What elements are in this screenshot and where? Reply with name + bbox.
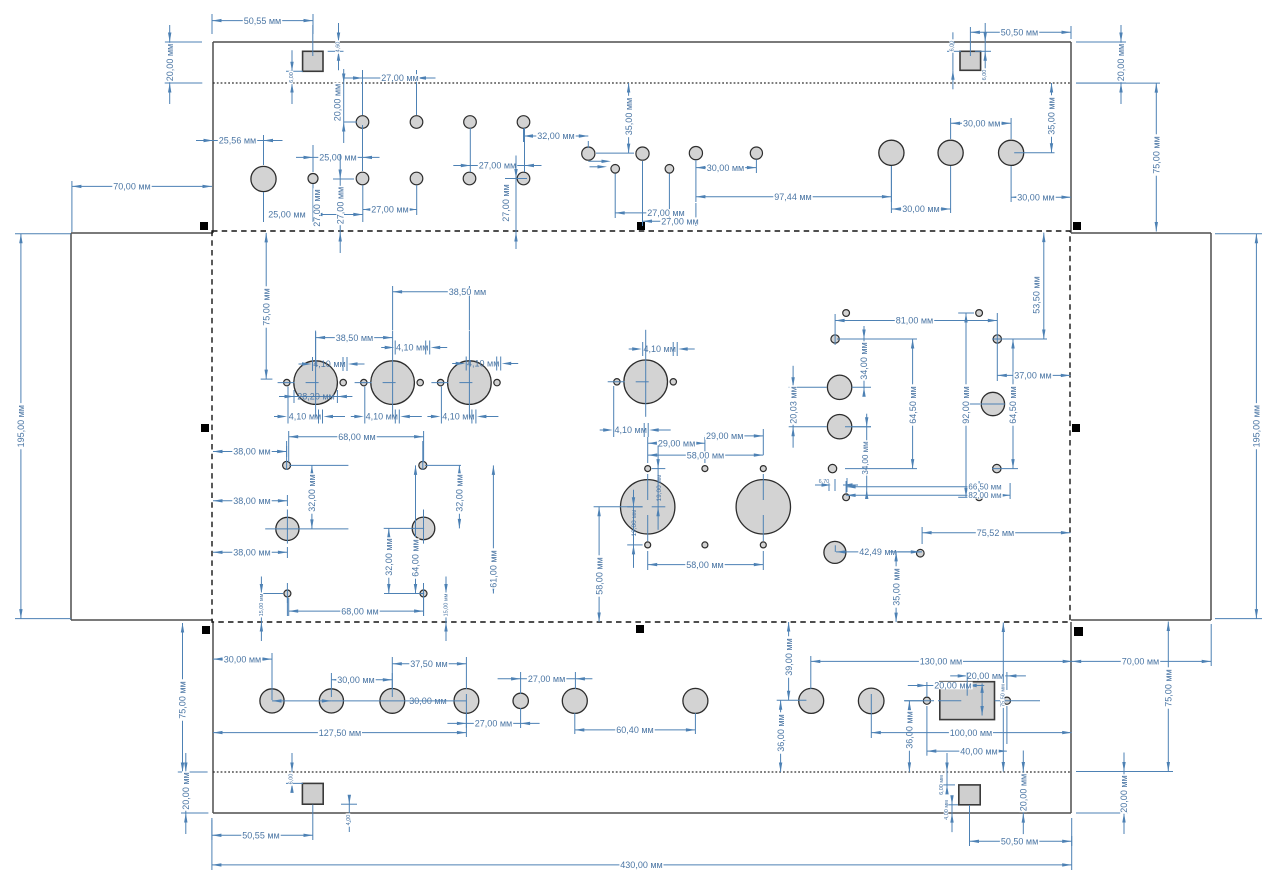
hole mount small A2 [419, 461, 427, 469]
svg-text:75,00 мм: 75,00 мм [1152, 136, 1162, 173]
svg-text:39,00 мм: 39,00 мм [784, 638, 794, 675]
dim 30,00 bf1 [271, 653, 273, 700]
hole right m2 [993, 335, 1001, 343]
svg-text:6,00: 6,00 [289, 774, 295, 785]
hole top trio #2 [938, 140, 963, 165]
hole bottom row #1 [260, 689, 284, 713]
dim 70,00 right-wing [1210, 624, 1212, 666]
dim 61,00 v [492, 465, 494, 548]
dim 20,00 iec-r [950, 675, 967, 677]
dim 64,50 left [880, 338, 917, 340]
svg-text:38,00 мм: 38,00 мм [233, 496, 270, 506]
grip handle top-left [200, 222, 208, 230]
dim 4,10 lower c1 [274, 416, 280, 418]
svg-text:6,00: 6,00 [950, 41, 956, 52]
dim 81,00 [834, 314, 836, 345]
hole cluster c1 [582, 147, 595, 160]
hole right jack [824, 541, 846, 563]
grip handle mid-right [1072, 424, 1080, 432]
svg-text:38,50 мм: 38,50 мм [336, 333, 373, 343]
cluster small leaders [588, 160, 606, 162]
dim 32,00 cluster [523, 129, 525, 143]
svg-text:61,00 мм: 61,00 мм [489, 550, 499, 587]
svg-text:32,00 мм: 32,00 мм [307, 474, 317, 511]
svg-text:36,00 мм: 36,00 мм [776, 714, 786, 751]
dim 25,56 [263, 135, 265, 165]
hole right b1 [828, 464, 836, 472]
grip handle top-right [1073, 222, 1081, 230]
svg-text:27,00 мм: 27,00 мм [312, 189, 322, 226]
svg-text:38,50 мм: 38,50 мм [449, 287, 486, 297]
bottom flap outline [212, 622, 214, 813]
dim 4,10 upper c2 [381, 347, 387, 349]
svg-text:4,10 мм: 4,10 мм [289, 412, 321, 422]
tube socket centerlines #1 [315, 331, 317, 418]
svg-text:27,00 мм: 27,00 мм [335, 187, 345, 224]
grip handle mid-left [201, 424, 209, 432]
dim 27,00 bf1 [520, 672, 522, 694]
hole cluster c4 [750, 147, 762, 159]
dim 42,49 [834, 545, 836, 552]
dim 20,00 iec-l [908, 685, 927, 687]
dim 40,00 [927, 750, 1007, 752]
svg-text:92,00 мм: 92,00 мм [961, 386, 971, 423]
svg-text:97,44 мм: 97,44 мм [774, 192, 811, 202]
dim 20,00 top-right-out [1076, 41, 1126, 43]
hole bottom row #4 [454, 689, 479, 714]
dim 4,10 lower c2 [351, 416, 357, 418]
dim 32,00 v3 [388, 528, 390, 536]
ext ticks left-pattern [289, 464, 348, 466]
hole mount mid B2 [412, 517, 435, 540]
svg-text:30,00 мм: 30,00 мм [337, 675, 374, 685]
dim 75,00 bf-right [1076, 771, 1173, 773]
svg-text:70,00 мм: 70,00 мм [113, 182, 150, 192]
transformer centerlines [647, 474, 649, 500]
svg-text:35,00 мм: 35,00 мм [624, 98, 634, 135]
hole right m1 [831, 335, 839, 343]
svg-text:37,00 мм: 37,00 мм [1014, 371, 1051, 381]
svg-text:20,03 мм: 20,03 мм [788, 386, 798, 423]
dim 25,00 rowB-low [312, 184, 314, 222]
dim 27,00 v-a [333, 178, 354, 180]
dim 100,00 [870, 694, 872, 738]
svg-text:75,00 мм: 75,00 мм [1164, 669, 1174, 706]
svg-text:30,00 мм: 30,00 мм [707, 163, 744, 173]
dim 20,00 top-left-out [165, 41, 202, 43]
dim 53,50 v [1006, 338, 1047, 340]
svg-text:27,00 мм: 27,00 мм [371, 205, 408, 215]
svg-text:29,00 мм: 29,00 мм [706, 431, 743, 441]
dim 58,00 bottom [647, 551, 649, 570]
svg-text:6,70: 6,70 [819, 479, 830, 485]
transformer screw hole #6 [760, 542, 766, 548]
svg-text:75,00 мм: 75,00 мм [261, 288, 271, 325]
dim 75,00 bf-left [178, 771, 208, 773]
dim 20,00 bf-right-out [1076, 812, 1128, 814]
bottom flange fold (dotted) [213, 771, 1071, 773]
dim 38,00 c [286, 547, 288, 558]
svg-text:20,00 мм: 20,00 мм [181, 772, 191, 809]
hole top row1 #2 [410, 116, 423, 129]
mini dim 6,70 [815, 484, 826, 486]
dim 28,20 [293, 390, 295, 403]
dim 4,10 upper c3 [452, 363, 458, 365]
dim 34,00 v1 [837, 338, 880, 340]
ext square-right centerline [969, 27, 971, 56]
dim 97,44 [695, 173, 697, 202]
transformer screw hole #2 [702, 466, 708, 472]
hole right med2 [827, 415, 851, 439]
svg-text:6,00: 6,00 [982, 70, 988, 81]
svg-text:25,56 мм: 25,56 мм [219, 136, 256, 146]
ext bsq-left centerline [312, 805, 314, 841]
svg-text:58,00 мм: 58,00 мм [686, 560, 723, 570]
svg-text:20,00 мм: 20,00 мм [1019, 774, 1029, 811]
transformer screw hole #3 [760, 466, 766, 472]
svg-text:81,00 мм: 81,00 мм [896, 316, 933, 326]
dim 4,10 upper c4 [629, 348, 635, 350]
svg-text:4,10 мм: 4,10 мм [396, 343, 428, 353]
svg-text:75,50 мм: 75,50 мм [1001, 684, 1007, 707]
svg-text:25,00 мм: 25,00 мм [268, 210, 305, 220]
grip handle bottom-left [202, 626, 210, 634]
hole top row1 #1 [356, 116, 369, 129]
hole cluster c2 [636, 147, 649, 160]
mini dim bsq-left 6,00 [286, 782, 303, 784]
dim 50,50 bottom [1071, 836, 1073, 846]
dim 30,00 bf2 [330, 673, 332, 697]
hole right med3 [981, 392, 1004, 415]
dim 68,00 lower [288, 598, 290, 616]
dim 130,00 [810, 656, 812, 689]
dim 38,50 b [392, 286, 394, 330]
hole mount small C1 [284, 590, 291, 597]
dim 75,00 panel-left-v [261, 378, 273, 380]
transformer screw hole #1 [645, 466, 651, 472]
hole bottom row #7 [683, 688, 708, 713]
right wing outline [1071, 232, 1211, 234]
svg-text:75,00 мм: 75,00 мм [178, 681, 188, 718]
svg-text:4,10 мм: 4,10 мм [442, 412, 474, 422]
svg-text:15,00 мм: 15,00 мм [444, 593, 450, 616]
svg-text:35,00 мм: 35,00 мм [891, 568, 901, 605]
svg-text:64,50 мм: 64,50 мм [1008, 386, 1018, 423]
dim 36,00 v1 [780, 700, 782, 712]
dim 15,00 left [260, 577, 262, 594]
hole top small [308, 174, 318, 184]
tube socket screw holes #1 [284, 379, 290, 385]
dim 75,52 [921, 527, 923, 544]
svg-text:15,00 мм: 15,00 мм [259, 593, 265, 616]
dim 27,00 v-b [505, 178, 527, 180]
tube socket hole D28.2 #3 [448, 361, 492, 405]
dim 36,00 v2 [905, 700, 923, 702]
dim 20,03 v [792, 366, 794, 387]
hole top row1 #4 [517, 116, 530, 129]
dim 27,00 cluster-low1 [614, 174, 616, 219]
svg-text:28,20 мм: 28,20 мм [297, 392, 334, 402]
top flange fold (dotted) [213, 82, 1071, 84]
svg-text:34,00 мм: 34,00 мм [859, 342, 869, 379]
svg-text:4,00 мм: 4,00 мм [944, 800, 950, 820]
svg-text:75,52 мм: 75,52 мм [977, 528, 1014, 538]
dim 64,50 right [992, 338, 1018, 340]
svg-text:64,50 мм: 64,50 мм [908, 386, 918, 423]
dim 30,00 trio-2 [950, 118, 952, 139]
grip handle top-mid [637, 222, 645, 230]
dim 195,00 right [1215, 233, 1262, 235]
svg-text:4,10 мм: 4,10 мм [313, 359, 345, 369]
hole bottom row #6 [562, 688, 587, 713]
top flap outline [213, 41, 1071, 43]
svg-text:27,00 мм: 27,00 мм [528, 674, 565, 684]
dim 39,00 v [777, 699, 807, 701]
dim 50,55 top [211, 14, 213, 34]
hole bottom row #2 [319, 689, 343, 713]
svg-text:4,10 мм: 4,10 мм [614, 425, 646, 435]
dim 92,00 [958, 312, 974, 314]
tube socket centerlines #4 [645, 330, 647, 417]
svg-text:4,10 мм: 4,10 мм [366, 412, 398, 422]
svg-text:4,60: 4,60 [336, 42, 342, 53]
svg-text:6,00 мм: 6,00 мм [939, 775, 945, 795]
grip handle bottom-right [1074, 627, 1083, 636]
svg-text:35,00 мм: 35,00 мм [1047, 97, 1057, 134]
dim 58,00 left-v [594, 506, 643, 508]
svg-text:430,00 мм: 430,00 мм [620, 860, 662, 870]
dim 27,00 bf2 [465, 713, 467, 728]
svg-text:50,50 мм: 50,50 мм [1001, 837, 1038, 847]
svg-text:130,00 мм: 130,00 мм [920, 657, 962, 667]
svg-text:20,00 мм: 20,00 мм [1119, 775, 1129, 812]
tube socket hole D28.2 #4 [624, 360, 668, 404]
right cluster centerlines [789, 386, 827, 388]
transformer screw hole #4 [645, 542, 651, 548]
hole top big-left [251, 166, 276, 191]
dim 75,00 top-right [1076, 82, 1160, 84]
square cutout top-right [960, 51, 981, 70]
dim 32,00 v2 [458, 465, 460, 472]
tube socket hole D28.2 #1 [294, 361, 338, 405]
hole IEC right [1003, 697, 1010, 704]
dim 50,55 bottom [211, 818, 213, 840]
dim 38,00 a [286, 446, 288, 457]
dim 70,00 left-wing [71, 181, 73, 232]
hole cluster s2 [665, 165, 674, 174]
dim 30,00 trio-1 [890, 166, 892, 213]
hole mount B2 centerlines [384, 527, 424, 529]
dim 32,00 v1 [311, 465, 313, 472]
svg-text:20,00 мм: 20,00 мм [165, 44, 175, 81]
hole top trio #1 [879, 140, 904, 165]
svg-text:50,55 мм: 50,55 мм [244, 16, 281, 26]
svg-text:30,00 мм: 30,00 мм [1017, 192, 1054, 202]
dim 4,10 lower c4 [600, 429, 606, 431]
tube socket screw holes #4 [614, 379, 620, 385]
hole right b2 [993, 464, 1001, 472]
mini dim sq-left 4,60 [328, 50, 344, 52]
left wing outline [71, 232, 213, 234]
svg-text:27,00 мм: 27,00 мм [661, 216, 698, 226]
dim 127,50 [465, 694, 467, 737]
dim 27,00 rowB-right [469, 128, 471, 172]
svg-text:58,00 мм: 58,00 мм [594, 557, 604, 594]
svg-text:20,00 мм: 20,00 мм [333, 84, 343, 121]
square cutout top-left [303, 51, 323, 71]
dim 20,00 bf-inside [1022, 751, 1024, 772]
mini dim sq-right a [947, 50, 961, 52]
svg-text:37,50 мм: 37,50 мм [410, 659, 447, 669]
svg-text:20,00 мм: 20,00 мм [934, 681, 971, 691]
svg-text:50,55 мм: 50,55 мм [242, 831, 279, 841]
tube socket screw holes #2 [361, 379, 367, 385]
svg-text:82,00 мм: 82,00 мм [968, 491, 1001, 500]
dim 195,00 left [15, 233, 71, 235]
svg-text:27,00 мм: 27,00 мм [501, 184, 511, 221]
svg-text:32,00 мм: 32,00 мм [537, 131, 574, 141]
mini dim bsq-left 4,00 [341, 803, 357, 805]
svg-text:195,00 мм: 195,00 мм [1252, 405, 1262, 447]
mini dim sq-right b [975, 50, 991, 52]
svg-text:20,00 мм: 20,00 мм [1116, 44, 1126, 81]
tube socket centerlines #3 [468, 331, 470, 418]
svg-text:38,00 мм: 38,00 мм [233, 548, 270, 558]
hole IEC left [923, 697, 930, 704]
tube socket centerlines #2 [392, 331, 394, 418]
svg-text:40,00 мм: 40,00 мм [960, 746, 997, 756]
dim 38,50 a [315, 332, 317, 366]
label 27,00 v-extra [312, 188, 322, 227]
selected panel rect (dashed) [212, 231, 1070, 622]
dim 430,00 [211, 820, 213, 870]
svg-text:32,00 мм: 32,00 мм [455, 474, 465, 511]
dim 27,00 rowA [362, 70, 364, 115]
hole mount B1 centerlines [265, 528, 348, 530]
svg-text:32,00 мм: 32,00 мм [384, 538, 394, 575]
mini dim bsq-right 4,00 [946, 804, 958, 806]
dim 34,00 v2 [845, 426, 871, 428]
dim 38,00 b [286, 495, 288, 506]
transformer screw hole #5 [702, 542, 708, 548]
hole cluster s1 [611, 165, 620, 174]
mini dim sq-left 6,00 [286, 70, 303, 72]
svg-text:30,00 мм: 30,00 мм [902, 204, 939, 214]
hole mount small A1 [283, 461, 291, 469]
iec ticks [966, 673, 968, 696]
svg-text:29,00 мм: 29,00 мм [658, 438, 695, 448]
dim 30,00 cluster [695, 160, 697, 173]
hole bottom row #3 [380, 689, 405, 714]
grip handle bottom-mid [636, 625, 644, 633]
dim 35,00 cluster-v [596, 152, 634, 154]
svg-text:20,00 мм: 20,00 мм [967, 671, 1004, 681]
svg-text:68,00 мм: 68,00 мм [341, 606, 378, 616]
svg-text:50,50 мм: 50,50 мм [1001, 28, 1038, 38]
svg-text:60,40 мм: 60,40 мм [616, 725, 653, 735]
ext square-left centerline [312, 25, 314, 56]
dim 20,00 rowA-v [344, 121, 357, 123]
dim 68,00 upper [288, 431, 290, 462]
hole top row2 #2 [410, 172, 423, 185]
dim 64,00 v [415, 465, 417, 537]
hole bottom row #9 [858, 688, 884, 714]
dim 82,00 [1009, 483, 1011, 499]
svg-text:19,00 мм: 19,00 мм [631, 509, 638, 537]
svg-text:70,00 мм: 70,00 мм [1122, 657, 1159, 667]
svg-text:19,00 мм: 19,00 мм [656, 474, 663, 502]
hole right tiny [917, 549, 925, 557]
dim 35,00 v-right [890, 551, 922, 553]
dim 29,00 a [647, 437, 649, 463]
svg-text:4,10 мм: 4,10 мм [643, 344, 675, 354]
tube socket hole D28.2 #2 [371, 361, 415, 405]
dim 25,00 rowB [312, 145, 314, 172]
hole top row2 #1 [356, 172, 369, 185]
svg-text:25,00 мм: 25,00 мм [319, 153, 356, 163]
hole cluster c3 [689, 147, 702, 160]
hole mount small C2 [420, 590, 427, 597]
ext bsq-right centerline [969, 805, 971, 846]
svg-text:4,10 мм: 4,10 мм [467, 359, 499, 369]
svg-text:27,00 мм: 27,00 мм [479, 161, 516, 171]
svg-text:38,00 мм: 38,00 мм [233, 447, 270, 457]
dim 50,50 top [1070, 26, 1072, 39]
svg-text:58,00 мм: 58,00 мм [687, 450, 724, 460]
hole top row2 #3 [463, 172, 476, 185]
iec height arrows [981, 683, 983, 715]
tube socket screw holes #3 [437, 379, 443, 385]
hole top trio #3 [999, 140, 1024, 165]
svg-text:27,00 мм: 27,00 мм [381, 73, 418, 83]
svg-text:127,50 мм: 127,50 мм [319, 728, 361, 738]
dim 35,00 trio-v [1014, 152, 1054, 154]
dim 27,00 rowB-low [416, 185, 418, 215]
mini dim bsq-right 6,00 [941, 784, 955, 786]
hole right small B1 [843, 494, 850, 501]
svg-text:68,00 мм: 68,00 мм [338, 432, 375, 442]
dim 58,00 top [648, 454, 764, 456]
svg-text:100,00 мм: 100,00 мм [950, 728, 992, 738]
svg-text:53,50 мм: 53,50 мм [1032, 276, 1042, 313]
svg-text:195,00 мм: 195,00 мм [16, 405, 26, 447]
hole top row2 #4 [517, 172, 530, 185]
hole right small B2 [976, 494, 983, 501]
dim 19,00 l [627, 506, 642, 508]
svg-text:30,00 мм: 30,00 мм [224, 654, 261, 664]
hole bottom row #8 [799, 688, 824, 713]
dim 30,00 trio-3 [1010, 166, 1012, 202]
svg-text:34,00 мм: 34,00 мм [861, 441, 870, 474]
svg-text:27,00 мм: 27,00 мм [475, 719, 512, 729]
transformer hole D27 #2 [736, 480, 790, 534]
hole right small T2 [976, 310, 983, 317]
dim 37,50 [391, 657, 393, 689]
svg-text:64,00 мм: 64,00 мм [411, 539, 421, 576]
transformer hole D27 #1 [621, 480, 675, 534]
dim 75,50 tiny-v [1002, 623, 1004, 696]
hole right small T1 [843, 310, 850, 317]
hole right med1 [827, 375, 851, 399]
dim 37,00 [996, 345, 998, 381]
hole top row1 #3 [464, 116, 477, 129]
dim 60,40 [574, 713, 576, 734]
hole bottom row #5 [513, 693, 528, 708]
svg-text:36,00 мм: 36,00 мм [905, 711, 915, 748]
dim 15,00 right [445, 577, 447, 594]
square cutout bottom-right [959, 785, 980, 805]
dim 4,10 upper c1 [299, 363, 305, 365]
